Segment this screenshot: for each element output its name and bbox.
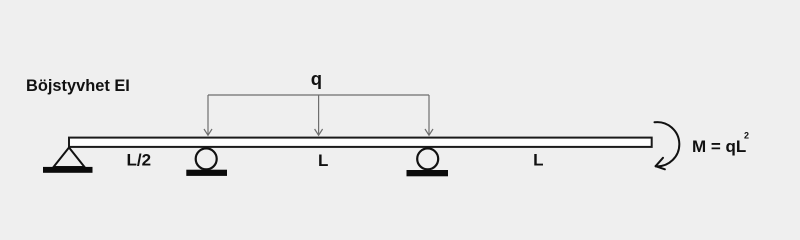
svg-text:L/2: L/2: [127, 151, 152, 170]
svg-text:Böjstyvhet EI: Böjstyvhet EI: [26, 77, 130, 95]
svg-text:L: L: [533, 151, 543, 170]
svg-text:q: q: [311, 68, 322, 89]
svg-text:M = qL: M = qL: [692, 137, 746, 156]
svg-text:L: L: [318, 151, 328, 170]
svg-text:2: 2: [744, 131, 749, 141]
